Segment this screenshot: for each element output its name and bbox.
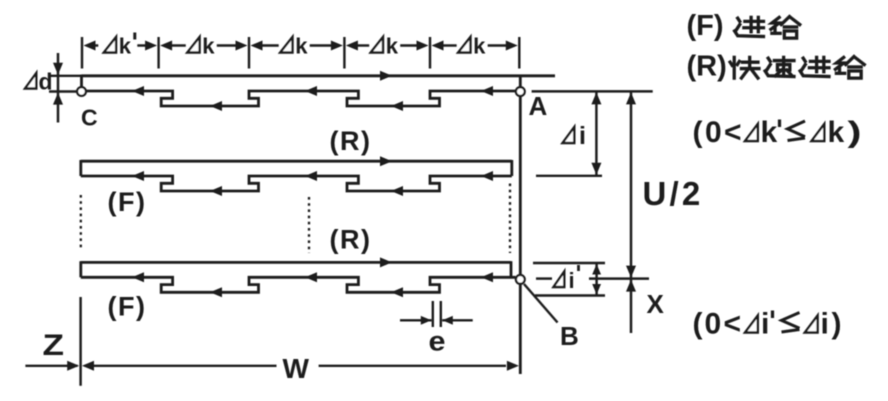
svg-text:W: W: [283, 353, 310, 384]
svg-text:): ): [848, 116, 862, 149]
node C circle: [77, 87, 86, 96]
dim delta-i-prime arrows: [592, 264, 601, 275]
svg-text:k: k: [202, 34, 215, 59]
hanzi gei rapid-line: [835, 57, 864, 79]
dim delta-i-prime vertical: [595, 263, 597, 296]
toolpath row3 return arrows: [132, 272, 144, 282]
label delta-i: [563, 127, 575, 143]
svg-text:k: k: [119, 34, 132, 59]
svg-text:d: d: [39, 69, 53, 95]
svg-text:X: X: [647, 289, 665, 319]
dim e tick right: [440, 301, 442, 327]
dim e line left: [400, 319, 432, 321]
node A circle: [516, 87, 525, 96]
svg-text:<: <: [724, 308, 742, 341]
vertical line A to B to W: [519, 75, 522, 374]
dim delta-d vertical: [57, 53, 59, 123]
svg-text:i: i: [821, 308, 829, 341]
label delta-d: [25, 73, 36, 89]
dim delta-d arrow upper: [53, 63, 63, 75]
svg-text:(: (: [693, 308, 703, 341]
svg-text:k: k: [473, 34, 486, 59]
dim W extension left vertical: [79, 297, 81, 386]
toolpath row2 right corner: [510, 160, 513, 176]
dim e tick left: [432, 301, 434, 327]
toolpath row3 top line arrow: [380, 257, 392, 267]
extension line from A: [532, 90, 653, 92]
top dimension line with arrows: [94, 44, 99, 46]
svg-text:B: B: [560, 321, 579, 351]
svg-text:k: k: [761, 116, 778, 149]
toolpath row2 rapid top line: [81, 160, 512, 163]
toolpath row1 rapid top line: [82, 74, 556, 77]
dim Z arrow: [67, 361, 79, 371]
svg-text:(F): (F): [108, 187, 147, 217]
leader line to B: [524, 284, 558, 323]
svg-text:(R): (R): [330, 126, 372, 156]
toolpath row3 rapid top line: [81, 261, 511, 264]
svg-text:<: <: [724, 116, 742, 149]
dim Z line: [25, 365, 77, 367]
dim delta-i arrows: [591, 92, 601, 104]
toolpath row1 return arrows: [132, 86, 144, 96]
top dimension ticks: [81, 37, 83, 69]
svg-text:(: (: [693, 116, 703, 149]
top dimension labels dk: [104, 37, 116, 53]
svg-text:Z: Z: [43, 329, 65, 362]
svg-text:A: A: [529, 91, 548, 121]
dim delta-i lower extension: [536, 175, 602, 177]
dim X vertical: [630, 279, 632, 333]
svg-text:): ): [832, 308, 842, 341]
svg-text:U/2: U/2: [643, 175, 704, 212]
hanzi jin feed-line: [735, 17, 764, 36]
hanzi kuai rapid-line: [730, 57, 759, 78]
svg-text:i: i: [569, 268, 575, 293]
svg-text:(F): (F): [108, 292, 147, 322]
dotted break line middle: [308, 197, 310, 253]
dim delta-i-prime lower extension: [535, 294, 605, 296]
hanzi gei feed-line: [771, 17, 800, 39]
svg-text:k: k: [386, 34, 399, 59]
toolpath row2 return arrows: [132, 171, 144, 181]
svg-text:(R): (R): [330, 225, 372, 255]
svg-text:(R): (R): [687, 51, 727, 83]
dim W line right part: [319, 365, 506, 367]
dim e line right: [442, 319, 473, 321]
svg-text:0: 0: [705, 116, 722, 149]
svg-text:e: e: [429, 326, 446, 357]
toolpath row2 top line arrow: [380, 156, 392, 166]
dim delta-i-prime mid stub: [536, 277, 552, 279]
dim delta-d extension top: [49, 75, 82, 77]
svg-text:(F): (F): [687, 10, 724, 42]
dim e arrows: [421, 316, 432, 325]
toolpath row2 pecking return path: [81, 176, 512, 191]
dim delta-d arrow lower: [53, 93, 63, 105]
dim delta-d extension bottom: [49, 90, 76, 92]
dim W arrow left: [82, 361, 94, 371]
dim U/2 arrows: [626, 92, 636, 104]
toolpath row2 left corner: [79, 160, 82, 176]
svg-text:i: i: [579, 122, 586, 150]
label delta-i-prime: [554, 272, 565, 288]
svg-text:0: 0: [705, 308, 722, 341]
svg-text:k: k: [295, 34, 308, 59]
dim W arrow right: [507, 361, 519, 371]
dim W line left part: [85, 365, 277, 367]
hanzi su rapid-line: [765, 57, 794, 76]
svg-text:k: k: [828, 116, 845, 149]
svg-text:i: i: [761, 308, 769, 341]
dim delta-i vertical: [595, 91, 597, 175]
toolpath row3 right corner: [510, 261, 513, 277]
extension line U2-X boundary: [589, 277, 649, 279]
node B circle: [516, 275, 525, 284]
toolpath row1 pecking return path: [86, 91, 516, 106]
toolpath row1 top line arrow: [380, 71, 392, 81]
svg-text:C: C: [81, 105, 98, 131]
dim delta-i-prime upper extension: [533, 262, 605, 264]
hanzi jin rapid-line: [800, 57, 829, 76]
dim U/2 vertical: [630, 91, 632, 278]
toolpath row1 left corner to C: [80, 75, 83, 88]
toolpath row3 left corner: [79, 261, 82, 277]
dotted break line left: [80, 195, 82, 250]
toolpath row3 pecking return path: [81, 277, 516, 292]
dim X arrow: [626, 280, 636, 292]
dotted break line right: [509, 184, 511, 254]
